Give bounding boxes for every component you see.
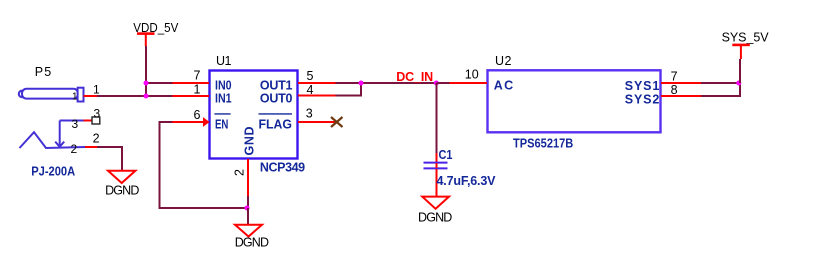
barrel body xyxy=(22,89,78,99)
capacitor C1 xyxy=(424,148,497,197)
svg-text:2: 2 xyxy=(93,132,100,146)
wire pin2 to junction xyxy=(247,196,249,208)
wire SYS2 up xyxy=(701,83,740,96)
svg-text:6: 6 xyxy=(194,108,201,122)
pin 3 unconnected square xyxy=(92,117,100,124)
svg-text:TPS65217B: TPS65217B xyxy=(513,136,573,150)
pin 1 stub xyxy=(84,95,98,97)
svg-text:SYS1: SYS1 xyxy=(625,79,660,93)
svg-text:C1: C1 xyxy=(439,148,453,162)
pin 2 stub xyxy=(85,146,97,148)
junction at pin2/DGND xyxy=(245,206,250,211)
svg-text:5: 5 xyxy=(307,69,314,83)
pin 3 FLAG xyxy=(298,121,337,123)
switch zigzag (pin 2 lever) xyxy=(20,132,86,148)
wire SYS1 to SYS_5V xyxy=(701,82,740,84)
svg-text:3: 3 xyxy=(94,106,101,120)
svg-text:SYS2: SYS2 xyxy=(625,92,660,106)
junction DC_IN / C1 xyxy=(434,81,439,86)
svg-text:4.7uF,6.3V: 4.7uF,6.3V xyxy=(437,174,497,188)
svg-text:3: 3 xyxy=(306,106,313,120)
svg-text:OUT0: OUT0 xyxy=(260,92,293,106)
svg-text:AC: AC xyxy=(494,79,513,93)
svg-text:OUT1: OUT1 xyxy=(260,79,293,93)
svg-text:P5: P5 xyxy=(35,65,52,79)
svg-text:GND: GND xyxy=(243,127,257,156)
power symbol SYS_5V xyxy=(722,30,770,59)
power symbol VDD_5V xyxy=(133,21,179,46)
no-connect X on FLAG xyxy=(331,117,343,127)
wire up to SYS_5V xyxy=(739,59,741,83)
pin 7 SYS1 xyxy=(661,82,701,84)
wire P5 pin1 to IN1 xyxy=(97,95,173,97)
svg-text:FLAG: FLAG xyxy=(259,118,293,132)
ground DGND (C1) xyxy=(418,197,452,225)
ground DGND (P5) xyxy=(105,171,139,198)
svg-text:7: 7 xyxy=(671,69,678,83)
svg-text:IN1: IN1 xyxy=(215,92,232,106)
junction SYS net xyxy=(736,81,741,86)
wire OUT1 to DC_IN net xyxy=(336,82,450,84)
svg-text:EN: EN xyxy=(215,118,228,132)
wire DC_IN down to C1 xyxy=(436,83,438,153)
pin 4 OUT0 xyxy=(298,95,336,97)
barrel tip rectangle xyxy=(78,88,84,102)
svg-text:PJ-200A: PJ-200A xyxy=(31,165,75,179)
pin 6 EN xyxy=(173,121,205,123)
svg-text:U1: U1 xyxy=(216,54,232,68)
svg-text:DGND: DGND xyxy=(418,210,452,224)
svg-text:NCP349: NCP349 xyxy=(260,161,305,175)
svg-text:U2: U2 xyxy=(495,54,512,68)
pin 3 symbol line xyxy=(60,120,84,122)
wire P5 pin2 to DGND xyxy=(97,147,122,171)
svg-text:1: 1 xyxy=(93,83,100,97)
svg-text:1: 1 xyxy=(194,83,201,97)
wire IN0 branch xyxy=(145,82,173,84)
junction at VDD / IN0 xyxy=(144,81,149,86)
wire EN loop xyxy=(160,122,249,208)
pin 2 GND stub xyxy=(247,159,249,196)
svg-text:IN0: IN0 xyxy=(215,79,232,93)
ground DGND (U1 pin2) xyxy=(235,225,269,250)
svg-text:1: 1 xyxy=(72,92,78,103)
wire junction to DGND xyxy=(247,208,249,225)
svg-text:2: 2 xyxy=(233,169,247,176)
wire VDD_5V vertical xyxy=(145,46,147,97)
switch vertical with arrow xyxy=(59,121,61,142)
pin 7 IN0 xyxy=(173,82,210,84)
wire OUT0 up to net xyxy=(336,83,362,96)
svg-text:4: 4 xyxy=(307,83,314,97)
svg-text:8: 8 xyxy=(671,83,678,97)
svg-text:3: 3 xyxy=(72,117,79,131)
connector P5 barrel jack xyxy=(19,65,85,148)
svg-text:DC_IN: DC_IN xyxy=(396,70,433,84)
svg-text:DGND: DGND xyxy=(105,184,139,198)
junction OUT0/net xyxy=(359,81,364,86)
pmic U2 body xyxy=(488,70,661,132)
pin 3 stub xyxy=(84,120,93,122)
svg-text:10: 10 xyxy=(465,67,479,81)
barrel open end arc xyxy=(19,91,24,98)
pin 5 OUT1 xyxy=(298,82,336,84)
pin 8 SYS2 xyxy=(661,95,701,97)
junction at VDD / IN1 xyxy=(144,94,149,99)
svg-text:SYS_5V: SYS_5V xyxy=(722,30,770,44)
svg-text:DGND: DGND xyxy=(235,236,269,250)
wire DC_IN to U2 pin stub xyxy=(437,82,450,84)
op IC U1 body xyxy=(210,71,298,159)
svg-text:2: 2 xyxy=(71,142,78,156)
pin 10 AC xyxy=(450,82,488,84)
pin 1 IN1 xyxy=(173,95,210,97)
svg-text:7: 7 xyxy=(194,69,201,83)
